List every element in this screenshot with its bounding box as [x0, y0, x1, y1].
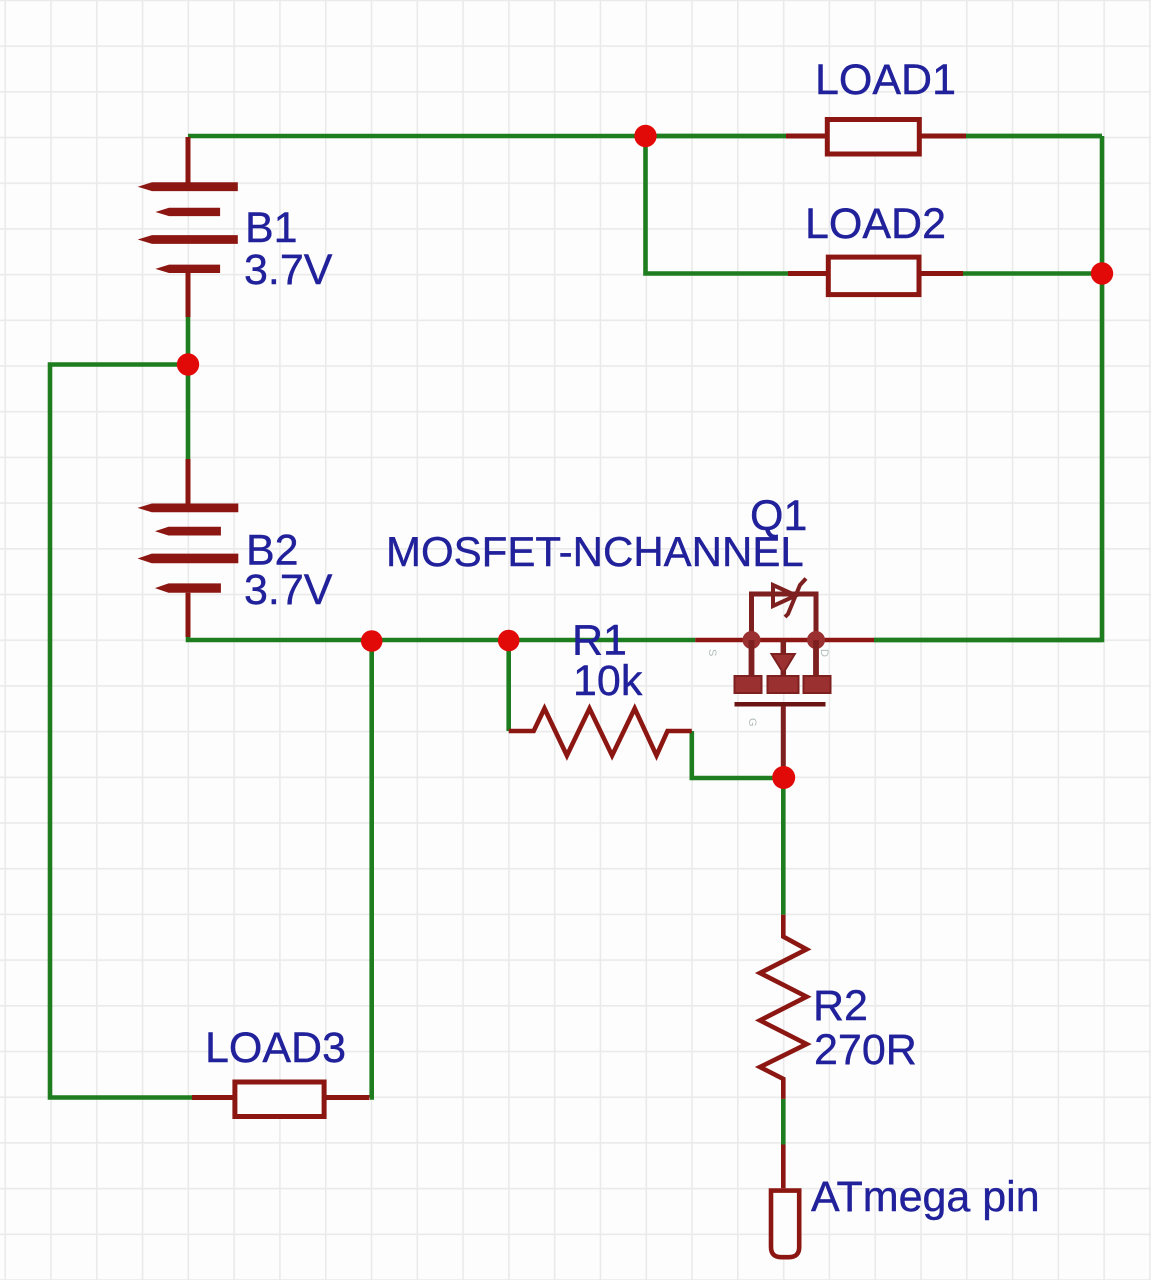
body diode slash [785, 579, 806, 618]
gate lead [781, 706, 786, 770]
junction node: top T to LOAD1/LOAD2 [634, 125, 656, 147]
wire: stub from top junction down to LOAD2 line [646, 136, 789, 274]
transistor Q1 MOSFET-NCHANNEL [695, 579, 874, 771]
wire: B2- corner to source line [188, 636, 372, 640]
symbol line between terminals [752, 638, 817, 643]
pad body [768, 676, 799, 693]
body diode triangle [773, 585, 796, 606]
svg-text:ATmega pin: ATmega pin [811, 1173, 1040, 1221]
wire: gate junction down to R2 [781, 778, 786, 915]
svg-text:R2: R2 [813, 982, 868, 1030]
wire: left rail from mid junction down to LOAD3 [50, 365, 192, 1098]
svg-text:10k: 10k [573, 657, 643, 705]
svg-text:G: G [746, 718, 758, 727]
terminal dot left [743, 631, 761, 649]
right leg [813, 640, 819, 678]
body diode bridge [752, 594, 817, 640]
svg-text:LOAD3: LOAD3 [205, 1024, 346, 1072]
connector ATmega pin [771, 1145, 799, 1258]
resistor LOAD2 [788, 257, 963, 295]
resistor R1 [509, 709, 692, 756]
wire: R2 bottom to ATmega pin [781, 1099, 786, 1145]
wire: R1 left drop from source line [506, 640, 511, 731]
wire: LOAD1 right green segment [966, 134, 1102, 139]
pad S [735, 676, 762, 693]
middle arrow [772, 654, 795, 673]
svg-text:S: S [706, 649, 718, 656]
resistor R2 [760, 915, 807, 1099]
svg-text:LOAD2: LOAD2 [805, 200, 946, 248]
pad D [804, 676, 831, 693]
svg-text:3.7V: 3.7V [244, 246, 333, 294]
source pin wire [816, 638, 874, 643]
wire: right vertical rail down to drain line [874, 136, 1102, 640]
battery B2 [138, 459, 239, 637]
svg-text:3.7V: 3.7V [244, 566, 333, 614]
svg-text:270R: 270R [814, 1026, 917, 1074]
left leg [749, 640, 755, 678]
wire: mid junction down to B2+ [186, 365, 191, 460]
svg-text:D: D [818, 649, 830, 657]
wire: drain line green to right rail [874, 638, 1102, 643]
junction node: B1- / left rail [177, 353, 199, 375]
junction node: gate / R1 / R2 [772, 766, 795, 789]
middle leg [781, 640, 787, 676]
wire: B1- to mid junction and left drop [186, 317, 191, 365]
wire: LOAD3 right vertical riser [370, 640, 372, 1098]
wire: LOAD2 right to right rail [963, 271, 1102, 276]
wire: top horizontal net from B1+ to right rail [188, 134, 1102, 139]
wire: R1 right drop to gate junction [692, 731, 784, 778]
junction node: source line / LOAD3 riser [361, 630, 383, 652]
resistor LOAD1 [786, 120, 966, 155]
junction node: source line / R1 drop [498, 630, 520, 652]
battery B1 [138, 137, 238, 317]
svg-text:MOSFET-NCHANNEL: MOSFET-NCHANNEL [386, 528, 804, 575]
junction node: LOAD2 right on rail [1091, 262, 1113, 284]
svg-text:B1: B1 [245, 204, 298, 252]
resistor LOAD3 [192, 1082, 370, 1117]
wire: LOAD1 left green segment [646, 134, 787, 139]
terminal dot right [807, 631, 825, 649]
wire: source line between junctions [372, 638, 696, 643]
drain pin wire [695, 638, 751, 643]
svg-text:LOAD1: LOAD1 [815, 56, 956, 104]
gate bar [735, 702, 826, 707]
